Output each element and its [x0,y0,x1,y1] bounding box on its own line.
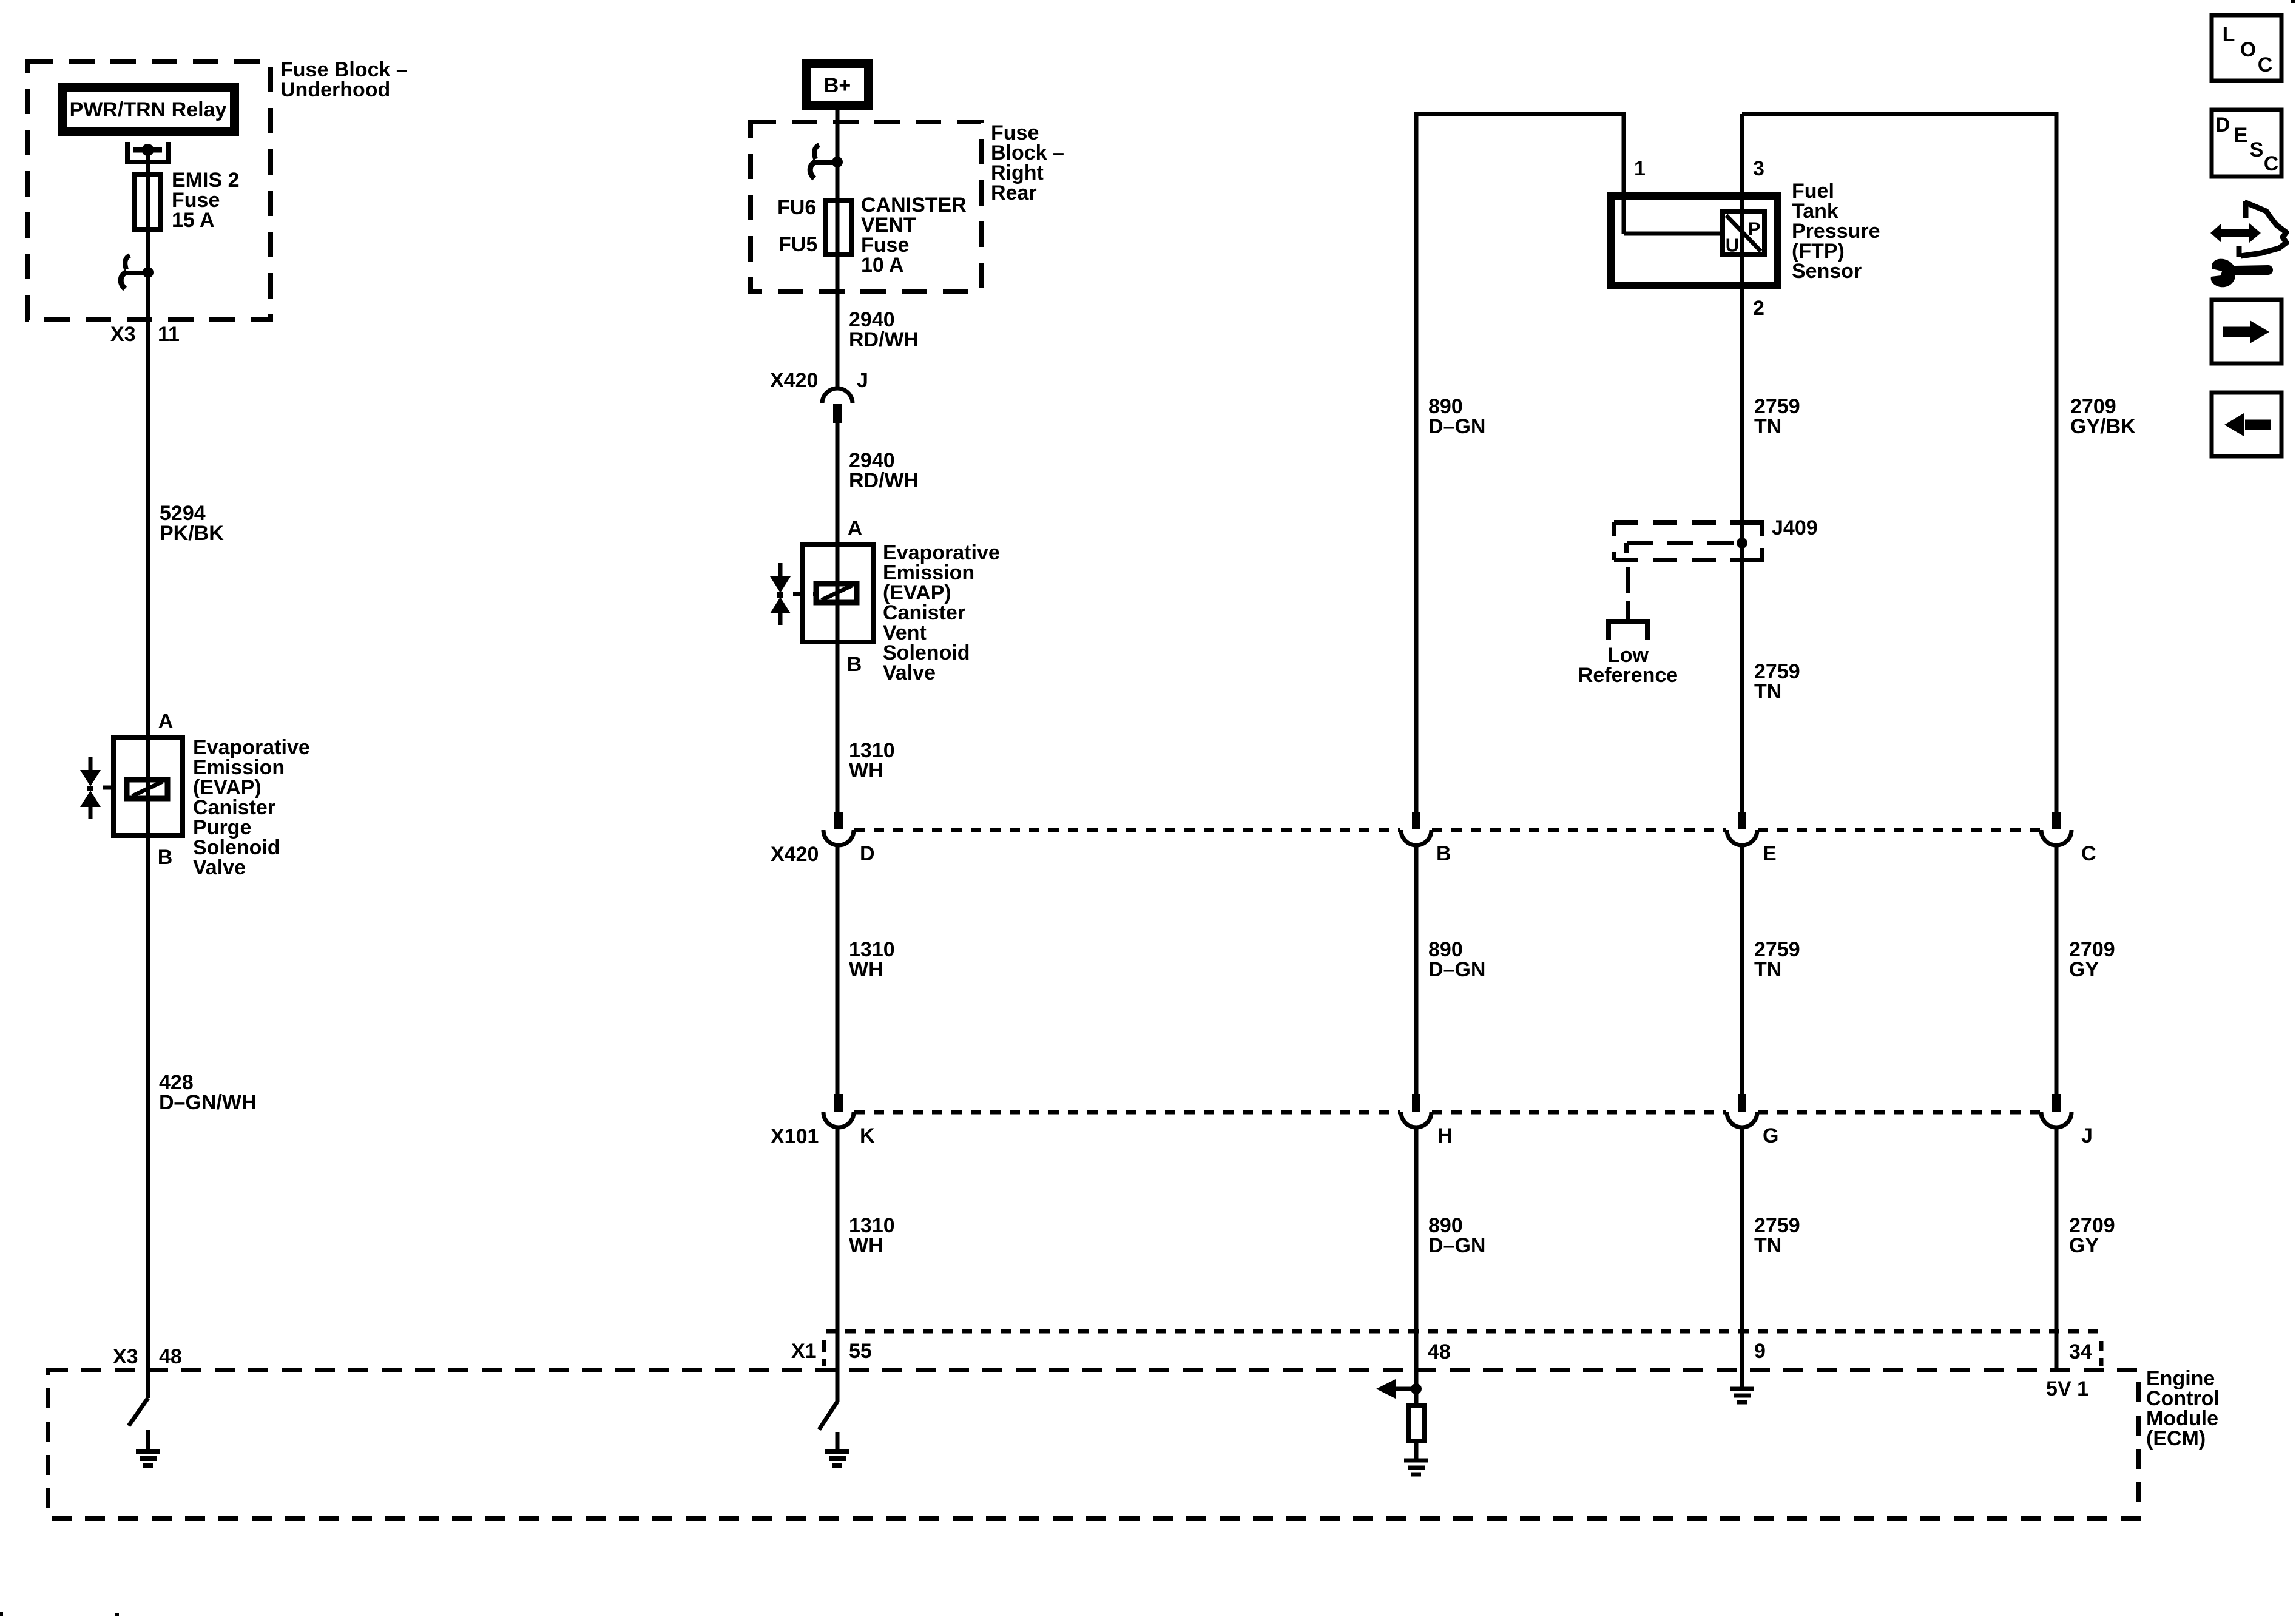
svg-text:G: G [1763,1124,1778,1147]
icon: DESC box [2212,110,2281,177]
svg-text:D–GN: D–GN [1428,958,1485,981]
svg-text:L: L [2223,23,2235,46]
wires between X420 and X101 [836,845,840,1094]
connector X101 pin G [1738,1094,1746,1112]
wire: relay to EMIS 2 fuse [146,150,150,177]
svg-text:U: U [1726,235,1739,256]
wire: fuse to X3-11 [146,175,150,738]
svg-text:11: 11 [158,323,180,346]
svg-text:O: O [2240,38,2256,61]
svg-text:FU6: FU6 [777,196,816,219]
svg-text:WH: WH [849,1234,883,1257]
svg-text:B: B [847,653,862,676]
ground inside ECM (pin 48) [1404,1459,1428,1463]
ECM internal switch at pin X3-48 [129,1398,148,1426]
relay contact (PWR/TRN relay output) [127,142,168,162]
sensor U1: Fuel Tank Pressure (FTP) Sensor box [1611,196,1777,285]
svg-text:FU5: FU5 [778,233,817,256]
FTP sensing element (P/U square) [1723,212,1764,255]
svg-text:Underhood: Underhood [280,78,390,101]
svg-text:WH: WH [849,759,883,782]
svg-text:C: C [2081,842,2096,865]
svg-text:D: D [2215,113,2230,137]
fuse FU6/FU5: CANISTER VENT Fuse 10 A [825,200,852,255]
svg-text:Valve: Valve [193,856,246,879]
ECM internal node at pin 48: signal arrow [1396,1387,1416,1391]
wire 890 D-GN: top run and drop to FTP pin 1 [1416,114,1624,812]
svg-text:X420: X420 [771,843,819,866]
connector X101 pin K [834,1094,843,1112]
svg-text:X101: X101 [771,1125,819,1148]
FTP sensor internal feed to element [1624,232,1723,236]
svg-text:Sensor: Sensor [1792,260,1862,283]
ECM internal switch at pin X1-55 [819,1402,837,1430]
svg-text:C: C [2264,152,2279,175]
svg-text:B: B [1436,842,1451,865]
icon: back arrow box [2212,393,2281,456]
svg-text:5V 1: 5V 1 [2046,1377,2088,1400]
svg-text:TN: TN [1754,1234,1781,1257]
ground inside ECM (X3-48) [146,1430,150,1451]
page artifacts [2291,0,2295,3]
relay K: PWR/TRN Relay label box [62,87,235,132]
clip junction at B+ feed [832,157,843,167]
svg-text:WH: WH [849,958,883,981]
svg-text:B+: B+ [824,74,851,97]
wires between X101 and ECM [836,1127,840,1402]
svg-text:1: 1 [1634,157,1646,180]
svg-text:X3: X3 [113,1345,138,1368]
icon: LOC box [2212,15,2281,81]
svg-text:10 A: 10 A [861,254,904,277]
icon: forward arrow box [2212,300,2281,363]
svg-text:C: C [2258,53,2273,76]
svg-text:J409: J409 [1772,516,1818,539]
fuse block - underhood (dashed enclosure) [28,62,271,320]
svg-text:H: H [1437,1124,1453,1147]
svg-text:B: B [158,846,173,869]
svg-text:48: 48 [159,1345,182,1368]
svg-text:P: P [1748,218,1761,240]
svg-text:PK/BK: PK/BK [160,522,224,545]
svg-text:15 A: 15 A [172,209,215,232]
coil of vent solenoid [816,584,857,603]
connector X420 pin C [2052,812,2061,829]
Low Reference terminal fork [1609,621,1647,640]
svg-text:X3: X3 [110,323,136,346]
icon: connector end view with wrench [2210,223,2261,243]
svg-text:GY: GY [2069,958,2099,981]
splice J409 (dashed splice pack) [1614,520,1764,525]
svg-text:(ECM): (ECM) [2146,1427,2206,1450]
connector X1 row dashed line [826,1329,2101,1334]
svg-text:55: 55 [849,1340,872,1363]
svg-text:D–GN: D–GN [1428,1234,1485,1257]
solenoid L1: EVAP Canister Purge Solenoid Valve box [113,738,183,836]
valve symbol (vent) [778,563,783,578]
svg-text:RD/WH: RD/WH [849,328,919,351]
connector X101 row dashed line [854,1110,1400,1115]
wire 2759 TN vertical through FTP sensor [1740,114,1744,812]
svg-text:RD/WH: RD/WH [849,469,919,492]
svg-text:E: E [1763,842,1777,865]
svg-text:TN: TN [1754,958,1781,981]
svg-text:34: 34 [2069,1340,2092,1363]
svg-text:K: K [860,1124,875,1147]
ground inside ECM (X1-55) [836,1432,840,1451]
svg-text:D–GN/WH: D–GN/WH [159,1091,257,1114]
svg-text:J: J [2081,1124,2093,1147]
svg-text:PWR/TRN Relay: PWR/TRN Relay [70,98,227,121]
fuse block - right rear (dashed enclosure) [751,122,981,291]
module: Engine Control Module (ECM) dashed box [48,1370,2138,1518]
connector X101 pin J [2052,1094,2061,1112]
svg-text:D–GN: D–GN [1428,415,1485,438]
ground inside ECM (pin 9) [1740,1387,1744,1389]
svg-text:Rear: Rear [991,181,1037,204]
svg-text:TN: TN [1754,415,1781,438]
svg-text:A: A [158,710,174,733]
wire: B+ into fuse block [836,110,840,389]
svg-text:GY: GY [2069,1234,2099,1257]
svg-text:J: J [857,369,868,392]
resistor R inside ECM (pin 48 pull-up) [1414,1394,1419,1405]
svg-text:TN: TN [1754,680,1781,703]
connector X420 row dashed line [854,828,1400,832]
svg-text:A: A [848,517,863,540]
wire: X420-J to vent valve [836,423,840,812]
fuse F1: EMIS 2 Fuse 15 A [135,175,160,229]
connector X420 pin D [834,812,843,829]
battery feed B+ [806,64,868,106]
connector X420 pin E [1738,812,1746,829]
connector X420 pin B [1412,812,1420,829]
dashed drop to Low Reference [1626,567,1630,593]
svg-text:X420: X420 [770,369,818,392]
svg-text:Reference: Reference [1578,664,1678,687]
clip junction below EMIS 2 fuse [143,267,154,278]
connector X101 pin H [1412,1094,1420,1112]
svg-text:2: 2 [1753,297,1764,320]
wire X3-48 drop into ECM [146,272,150,1398]
svg-text:Valve: Valve [883,661,936,684]
svg-text:GY/BK: GY/BK [2070,415,2136,438]
svg-text:48: 48 [1428,1340,1451,1363]
svg-text:E: E [2234,124,2248,147]
coil of purge solenoid [127,780,167,798]
valve symbol (purge) [89,757,93,771]
svg-text:S: S [2250,138,2264,161]
solenoid L2: EVAP Canister Vent Solenoid Valve box [803,545,873,642]
svg-text:9: 9 [1754,1340,1766,1363]
wire 2709 GY/BK: top run from pin 3 node [1742,114,2056,812]
svg-text:D: D [860,842,875,865]
svg-text:X1: X1 [791,1340,817,1363]
svg-text:3: 3 [1753,157,1764,180]
